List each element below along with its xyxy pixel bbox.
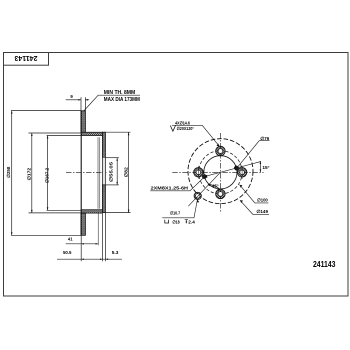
- disc outboard face line: [80, 111, 82, 236]
- counterbore symbol: [165, 220, 169, 223]
- dia172 arrows: [31, 133, 33, 136]
- svg-text:4X∅14.6: 4X∅14.6: [175, 120, 190, 125]
- bolt holes 4x dia14.6: [194, 146, 247, 199]
- 15deg arrow: [260, 169, 262, 172]
- bore edge line left: [101, 158, 103, 185]
- right view labels: [151, 120, 270, 224]
- mounting flange strip lower (hatched): [102, 185, 105, 213]
- 45deg arc arrows: [208, 184, 211, 187]
- left view labels: [6, 90, 140, 255]
- bolt hole W tick: [197, 166, 199, 179]
- 9 dim extension lines: [80, 97, 82, 111]
- title box top-left: [4, 53, 49, 66]
- svg-text:∅100: ∅100: [257, 198, 268, 203]
- dia55.05 arrows: [116, 158, 118, 161]
- bolt hole E: [237, 168, 247, 178]
- svg-text:∅172: ∅172: [27, 167, 32, 180]
- svg-text:MAX DIA 173MM: MAX DIA 173MM: [104, 97, 140, 103]
- dia82 arrows: [128, 132, 130, 135]
- svg-text:41: 41: [68, 236, 73, 241]
- leader arrowheads: [240, 185, 243, 188]
- dia55.05 dimension line: [116, 158, 118, 185]
- 9 dim arrows: [78, 99, 81, 101]
- horizontal centerline: [172, 171, 263, 173]
- svg-text:MIN TH. 8MM: MIN TH. 8MM: [104, 90, 136, 96]
- svg-text:15°: 15°: [262, 165, 270, 170]
- 15 deg vertical leg: [259, 161, 261, 172]
- svg-text:∅20X120°: ∅20X120°: [177, 126, 195, 131]
- drum wall upper band (hatched): [81, 132, 102, 135]
- flange step line dia149 left: [97, 137, 99, 208]
- leader MIN TH: [84, 95, 140, 111]
- flange step line dia149 right: [99, 137, 101, 208]
- flange center bore region: [102, 158, 105, 185]
- dia55.05 hole edge ticks: [105, 157, 118, 159]
- svg-text:45°: 45°: [212, 183, 219, 188]
- svg-text:∅82: ∅82: [123, 166, 128, 177]
- dia258 extension lines: [11, 110, 81, 112]
- bottom extension lines: [80, 235, 82, 261]
- svg-text:∅167.2: ∅167.2: [44, 167, 49, 183]
- bolt hole N: [216, 146, 226, 156]
- drum wall lower band (hatched): [81, 210, 102, 213]
- leader dia149: [240, 200, 269, 214]
- leader dia10.7: [162, 200, 197, 218]
- 41 dim right extension line: [97, 213, 99, 246]
- 9 dim line segments: [66, 99, 81, 101]
- circle dia76: [204, 156, 237, 189]
- svg-text:∅149: ∅149: [256, 209, 268, 214]
- svg-text:2XM8X1.25-6H: 2XM8X1.25-6H: [151, 186, 188, 191]
- leader dia100: [240, 185, 269, 203]
- 45 deg line: [188, 172, 220, 206]
- dia82 extension lines right: [105, 131, 130, 133]
- arrows right view: [197, 143, 262, 203]
- dia167.2 arrows: [47, 136, 49, 139]
- mounting flange strip upper (hatched): [102, 132, 105, 158]
- leader 2xM8: [150, 178, 203, 191]
- border frame: [4, 53, 349, 297]
- svg-text:∅55.05: ∅55.05: [109, 161, 114, 182]
- bolt hole S: [216, 189, 226, 199]
- bore edge line right: [104, 158, 106, 185]
- 45 deg arc: [208, 185, 220, 190]
- leader 4x dia14.6: [172, 125, 219, 146]
- bolt hole E tick: [241, 166, 243, 179]
- svg-text:5.3: 5.3: [112, 250, 119, 255]
- centerline left view: [66, 171, 107, 173]
- dia172 extension lines: [29, 132, 82, 134]
- svg-text:2.4: 2.4: [188, 219, 195, 224]
- arrows left view: [11, 99, 129, 260]
- bottom dim line 50.5 / 5.3: [57, 258, 122, 260]
- svg-text:241143: 241143: [15, 54, 38, 63]
- depth symbol: [185, 220, 188, 224]
- vertical centerline: [219, 133, 221, 212]
- countersink symbol: [170, 126, 175, 132]
- dia258 dimension line: [11, 111, 13, 236]
- disc plate upper section (hatched): [81, 111, 86, 132]
- bottom arrows: [81, 258, 84, 260]
- bolt circle dia100 (dashed): [199, 151, 242, 194]
- svg-text:∅10.7: ∅10.7: [170, 211, 181, 216]
- svg-text:∅76: ∅76: [260, 136, 270, 141]
- dia172 dimension line: [31, 133, 33, 213]
- dia167.2 extension lines: [47, 135, 81, 137]
- svg-text:50.5: 50.5: [63, 250, 72, 255]
- outer circle dia149: [188, 139, 253, 204]
- dia258 arrows: [11, 111, 13, 114]
- 41 dim line: [66, 243, 99, 245]
- svg-text:∅18: ∅18: [172, 219, 180, 224]
- svg-text:241143: 241143: [313, 260, 336, 269]
- svg-text:∅258: ∅258: [6, 166, 11, 178]
- M8 hole NE (filled): [234, 166, 238, 170]
- 41 arrows: [81, 243, 84, 245]
- bolt hole W: [194, 168, 204, 178]
- counterbore hole SW dia10.7: [194, 192, 201, 199]
- dia82 dimension line: [128, 132, 130, 212]
- dia167.2 dimension line: [47, 136, 49, 211]
- leader dia76: [238, 141, 270, 168]
- disc plate lower section (hatched): [81, 213, 86, 235]
- 15 deg line through M8 holes: [203, 162, 261, 177]
- M8 hole SW (filled): [202, 174, 206, 178]
